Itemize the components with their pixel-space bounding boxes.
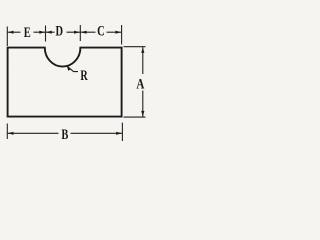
arrow A down [141, 111, 144, 117]
dimension line E/D segment [34, 31, 55, 33]
arrow C left [81, 31, 87, 34]
dimension line B left segment [7, 132, 58, 134]
extension line right (tick for C, above top-right corner) [121, 25, 123, 45]
label E [24, 24, 31, 40]
label B [61, 126, 68, 142]
svg-text:B: B [61, 126, 68, 142]
leader arrow to notch arc [67, 65, 71, 71]
extension line between D and C (right notch tangent) [79, 25, 81, 41]
leader line to R [68, 67, 78, 72]
arrow D right [74, 31, 80, 34]
extension line bottom for A [124, 116, 146, 118]
arrow D left [46, 31, 52, 34]
dimension line A upper segment [142, 47, 144, 74]
arrow C right [115, 31, 121, 34]
arrow B right [116, 132, 122, 135]
label A [136, 76, 145, 92]
extension line left (tick for E, above top-left corner) [6, 27, 8, 47]
extension line right for B [121, 123, 123, 141]
label C [97, 23, 105, 39]
dimension line C segment [107, 31, 122, 33]
paper background [0, 0, 150, 150]
svg-text:D: D [56, 23, 64, 39]
arrow E left [8, 31, 14, 34]
svg-text:A: A [136, 76, 145, 92]
arrow E right [39, 31, 45, 34]
dimension line B right segment [71, 132, 123, 134]
svg-text:R: R [80, 67, 88, 83]
extension line between E and D (left notch tangent) [45, 26, 47, 42]
arrow B left [8, 132, 14, 135]
label R [80, 67, 88, 83]
arrow A up [141, 47, 144, 53]
extension line left for B [6, 124, 8, 140]
part outline: rectangle with semicircular notch in top edge [8, 48, 122, 117]
dimension line E segment [7, 31, 20, 33]
dimension line D/C segment [67, 31, 96, 33]
dimension line A lower segment [142, 91, 144, 117]
svg-text:C: C [97, 23, 105, 39]
svg-text:E: E [24, 24, 31, 40]
extension line top for A [124, 46, 146, 48]
label D [56, 23, 64, 39]
